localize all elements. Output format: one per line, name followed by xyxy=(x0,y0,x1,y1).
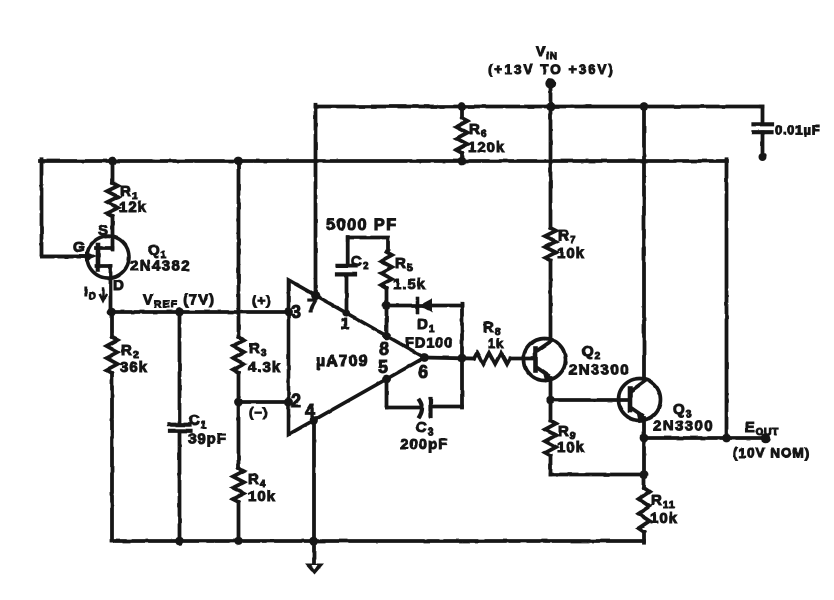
svg-text:R6: R6 xyxy=(469,121,487,140)
svg-text:10k: 10k xyxy=(557,439,585,456)
label pin 2 xyxy=(291,391,302,411)
label 5000 PF xyxy=(326,216,397,234)
wire comp loop right side xyxy=(460,304,464,408)
node VIN rail junction xyxy=(546,102,555,111)
label R4 value xyxy=(248,471,276,505)
wire Q2 emitter drop xyxy=(549,378,553,400)
svg-text:0.01µF: 0.01µF xyxy=(775,123,821,138)
svg-text:3: 3 xyxy=(291,302,302,322)
svg-text:(10V NOM): (10V NOM) xyxy=(733,446,810,461)
node emitter R9 R11 junction xyxy=(640,470,649,479)
wire VREF node to op-amp pin3 xyxy=(112,310,289,314)
resistor R9 xyxy=(545,400,556,475)
wire VIN top rail xyxy=(316,105,763,109)
wire output xyxy=(644,436,766,440)
label D1 type FD100 xyxy=(405,336,454,352)
svg-text:200pF: 200pF xyxy=(400,436,448,453)
svg-text:ID: ID xyxy=(84,284,97,302)
node pin5 tap xyxy=(382,375,391,384)
wire divider node to op-amp pin2 xyxy=(239,400,289,404)
wire gate loop left xyxy=(42,159,90,256)
svg-text:4: 4 xyxy=(305,401,316,421)
label VREF (7V) xyxy=(143,293,215,311)
node R3 top on feedback rail xyxy=(234,157,243,166)
resistor R5 xyxy=(381,252,392,288)
svg-text:G: G xyxy=(73,239,86,256)
resistor R7 xyxy=(545,228,556,261)
svg-text:2N4382: 2N4382 xyxy=(130,258,191,275)
label output voltage xyxy=(733,446,810,461)
label R6 value xyxy=(468,121,505,156)
label R11 value xyxy=(650,492,678,527)
svg-text:S: S xyxy=(98,222,109,239)
svg-text:µA709: µA709 xyxy=(316,353,368,370)
label Q1 pin D xyxy=(113,277,125,294)
wire comp bracket xyxy=(348,238,388,253)
wire Q3 collector to VIN rail xyxy=(642,107,646,381)
node Q3 collector on VIN rail xyxy=(640,102,649,111)
wire pin5 comp lead xyxy=(385,379,389,408)
node R4 bottom on ground rail xyxy=(234,537,243,546)
node R6 bottom on feedback rail xyxy=(458,157,467,166)
svg-text:120k: 120k xyxy=(468,139,505,156)
svg-text:1: 1 xyxy=(341,316,351,333)
svg-text:5: 5 xyxy=(378,357,389,377)
label Q1 designator xyxy=(148,242,167,261)
node Q2 emitter junction xyxy=(546,396,555,405)
label op-amp input plus xyxy=(252,293,271,308)
label Q1 drain current ID xyxy=(84,284,106,302)
svg-text:R11: R11 xyxy=(651,492,675,511)
wire VIN terminal drop xyxy=(549,84,553,107)
label R3 value xyxy=(248,340,281,376)
label pin 4 xyxy=(305,401,316,421)
label R8 value xyxy=(483,319,504,351)
node pin8 wire junction xyxy=(382,301,391,310)
node R6 top on VIN rail xyxy=(458,102,467,111)
label Q3 type 2N3300 xyxy=(653,418,714,435)
resistor R2 xyxy=(107,312,118,541)
svg-text:5000 PF: 5000 PF xyxy=(326,216,397,234)
label pin 6 xyxy=(418,362,429,382)
label C1 value 39pF xyxy=(188,412,227,448)
diode D1 FD100 xyxy=(418,299,433,313)
label EOUT xyxy=(745,420,779,438)
svg-text:(+): (+) xyxy=(252,293,271,308)
svg-text:8: 8 xyxy=(379,339,390,359)
svg-text:R7: R7 xyxy=(558,227,576,246)
capacitor C2 xyxy=(337,237,356,313)
node pin2 entry xyxy=(284,398,293,407)
label R2 value xyxy=(120,342,148,376)
node output junction xyxy=(640,434,649,443)
wire VIN to R7 xyxy=(549,107,553,229)
label VIN xyxy=(536,44,558,62)
svg-text:4.3k: 4.3k xyxy=(248,359,281,376)
label pin 7 xyxy=(307,296,318,316)
label R9 value xyxy=(557,423,585,456)
svg-text:36k: 36k xyxy=(120,359,148,376)
svg-text:C2: C2 xyxy=(351,253,369,272)
transistor Q3 2N3300 xyxy=(619,379,661,423)
terminal VIN xyxy=(545,78,555,88)
label Q1 type 2N4382 xyxy=(130,258,191,275)
svg-text:D1: D1 xyxy=(417,316,435,335)
node C1 top xyxy=(175,308,184,317)
label Q1 pin S xyxy=(98,222,109,239)
svg-text:R5: R5 xyxy=(395,255,413,274)
resistor R3 xyxy=(233,337,244,373)
resistor R11 xyxy=(639,475,650,543)
wire bottom ground rail xyxy=(112,539,645,543)
label Q1 pin G xyxy=(73,239,86,256)
wire op-amp output xyxy=(425,358,475,359)
node pin4 ground rail junction xyxy=(309,537,318,546)
svg-text:R3: R3 xyxy=(249,340,267,359)
node VREF junction Q1 drain xyxy=(107,308,116,317)
label R1 value 12k xyxy=(119,183,147,216)
label C4 value 0.01uF xyxy=(775,123,821,138)
svg-text:FD100: FD100 xyxy=(405,336,454,352)
label pin 3 xyxy=(291,302,302,322)
svg-text:2N3300: 2N3300 xyxy=(569,362,630,379)
svg-text:2: 2 xyxy=(291,391,302,411)
resistor R8 xyxy=(474,353,510,364)
svg-text:D: D xyxy=(113,277,125,294)
wire R1 to Q1 source xyxy=(111,216,115,250)
node pin4 tap xyxy=(309,416,318,425)
wire Q2 emitter to Q3 base xyxy=(551,398,629,402)
svg-text:10k: 10k xyxy=(557,245,585,262)
label op-amp input minus xyxy=(249,405,268,420)
svg-text:6: 6 xyxy=(418,362,429,382)
svg-text:EOUT: EOUT xyxy=(745,420,779,438)
wire pin7 supply drop xyxy=(314,105,318,296)
wire R5 to pin8 node xyxy=(385,288,389,336)
terminal EOUT xyxy=(761,433,771,443)
node C1 bottom on ground rail xyxy=(175,537,184,546)
node pin6 output apex xyxy=(420,353,429,362)
wire pin4 to ground xyxy=(312,421,316,564)
label C2 xyxy=(351,253,369,272)
svg-text:C1: C1 xyxy=(189,412,207,431)
wire EOUT feedback rail xyxy=(40,159,727,163)
node inverting divider xyxy=(234,398,243,407)
label D1 xyxy=(417,316,435,335)
capacitor C3 xyxy=(387,399,463,417)
node feedback output junction xyxy=(722,434,731,443)
node pin7 tap xyxy=(311,291,320,300)
wire R9 to emitter column xyxy=(551,473,645,477)
svg-text:VIN: VIN xyxy=(536,44,558,62)
ground xyxy=(305,564,324,575)
label pin 1 xyxy=(341,316,351,333)
node comp loop output junction xyxy=(458,354,467,363)
svg-text:39pF: 39pF xyxy=(188,431,227,448)
wire Q3 emitter drop xyxy=(642,418,646,475)
label pin 5 xyxy=(378,357,389,377)
wire feedback rail right drop to output xyxy=(725,159,729,438)
svg-text:12k: 12k xyxy=(119,199,147,216)
op-amp U1 uA709 xyxy=(289,280,425,435)
label Q3 designator xyxy=(673,401,692,420)
label C3 xyxy=(416,419,434,438)
transistor Q2 2N3300 xyxy=(524,339,566,383)
svg-text:1.5k: 1.5k xyxy=(393,276,426,293)
capacitor C4 0.01uF xyxy=(754,107,773,162)
node pin3 entry xyxy=(284,308,293,317)
node pin1 tap xyxy=(343,309,350,316)
label Q2 designator xyxy=(582,343,601,362)
wire R3 top lead xyxy=(237,161,241,337)
transistor Q1 2N4382 JFET xyxy=(42,236,130,312)
label VIN range xyxy=(488,62,615,77)
resistor R4 xyxy=(233,402,244,541)
svg-text:Q2: Q2 xyxy=(582,343,601,362)
node pin8 slope tap xyxy=(382,332,391,341)
resistor R1 xyxy=(107,183,118,216)
wire diode branch xyxy=(387,304,463,308)
wire R7 to Q2 collector xyxy=(549,261,553,341)
wire R3 to node xyxy=(237,373,241,402)
label C3 value 200pF xyxy=(400,436,448,453)
svg-text:(+13V TO +36V): (+13V TO +36V) xyxy=(488,62,615,77)
label uA709 xyxy=(316,353,368,370)
label Q2 type 2N3300 xyxy=(569,362,630,379)
resistor R6 xyxy=(457,107,468,162)
node R1 top on feedback rail xyxy=(108,157,117,166)
label R7 value xyxy=(557,227,585,262)
svg-text:(−): (−) xyxy=(249,405,268,420)
wire R1 top lead xyxy=(111,161,115,183)
svg-text:10k: 10k xyxy=(650,510,678,527)
label pin 8 xyxy=(379,339,390,359)
wire R8 to Q2 base xyxy=(510,357,534,361)
svg-text:10k: 10k xyxy=(248,488,276,505)
svg-text:1k: 1k xyxy=(488,336,504,351)
svg-text:2N3300: 2N3300 xyxy=(653,418,714,435)
capacitor C1 xyxy=(170,312,191,541)
label R5 value xyxy=(393,255,426,293)
svg-text:7: 7 xyxy=(307,296,318,316)
